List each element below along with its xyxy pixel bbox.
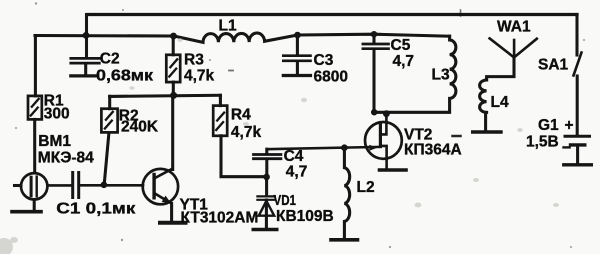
- svg-text:300: 300: [44, 106, 70, 123]
- svg-text:L3: L3: [432, 67, 450, 84]
- svg-text:0,68мк: 0,68мк: [96, 68, 153, 85]
- svg-text:L1: L1: [219, 17, 237, 34]
- svg-text:L4: L4: [491, 94, 509, 111]
- svg-text:240K: 240K: [121, 118, 159, 135]
- svg-text:4,7: 4,7: [286, 164, 308, 181]
- svg-text:R4: R4: [231, 107, 251, 124]
- svg-text:C2: C2: [100, 51, 120, 68]
- svg-text:WA1: WA1: [497, 19, 531, 36]
- svg-text:C3: C3: [314, 52, 334, 69]
- svg-text:КВ109В: КВ109В: [276, 208, 334, 225]
- svg-text:6800: 6800: [314, 69, 348, 86]
- svg-text:4,7: 4,7: [393, 53, 415, 70]
- svg-text:КП364А: КП364А: [404, 141, 462, 158]
- svg-text:1,5В: 1,5В: [526, 134, 559, 151]
- svg-text:BM1: BM1: [38, 133, 71, 150]
- svg-text:4,7k: 4,7k: [184, 68, 215, 85]
- svg-text:КТ3102АМ: КТ3102АМ: [181, 209, 259, 226]
- svg-text:L2: L2: [357, 179, 375, 196]
- svg-text:VD1: VD1: [274, 193, 297, 209]
- svg-text:R3: R3: [184, 52, 204, 69]
- svg-text:C4: C4: [284, 148, 304, 165]
- svg-text:C5: C5: [391, 37, 411, 54]
- svg-text:МКЭ-84: МКЭ-84: [38, 150, 94, 167]
- svg-text:SA1: SA1: [538, 56, 569, 73]
- svg-text:+: +: [565, 117, 574, 134]
- svg-text:4,7k: 4,7k: [231, 124, 262, 141]
- svg-text:G1: G1: [538, 117, 559, 134]
- svg-text:C1 0,1мк: C1 0,1мк: [56, 200, 135, 217]
